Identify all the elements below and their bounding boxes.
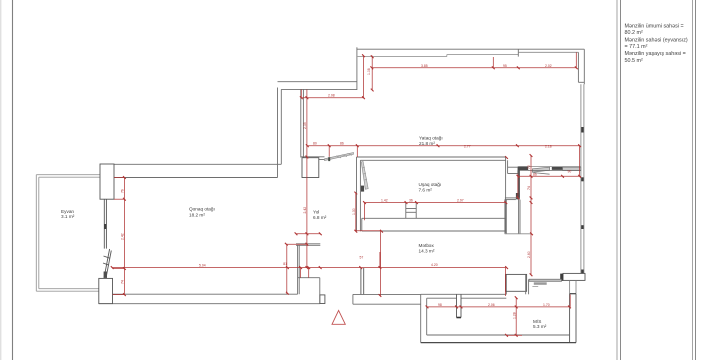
svg-text:Mətbəx: Mətbəx xyxy=(419,243,435,248)
svg-text:14.3 m²: 14.3 m² xyxy=(419,248,435,253)
svg-text:2.97: 2.97 xyxy=(457,199,464,203)
svg-text:2.42: 2.42 xyxy=(303,207,307,214)
svg-text:98: 98 xyxy=(438,303,442,307)
svg-text:76: 76 xyxy=(121,189,125,193)
svg-text:1.30: 1.30 xyxy=(352,208,356,215)
svg-text:4.20: 4.20 xyxy=(431,263,438,267)
svg-text:18.2 m²: 18.2 m² xyxy=(189,212,205,217)
svg-text:Mənzilin yaşayış sahəsi =: Mənzilin yaşayış sahəsi = xyxy=(625,51,686,57)
svg-text:2.06: 2.06 xyxy=(488,303,495,307)
svg-text:2.77: 2.77 xyxy=(464,144,471,148)
svg-text:36: 36 xyxy=(409,199,413,203)
svg-text:80: 80 xyxy=(313,142,317,146)
svg-text:86: 86 xyxy=(533,173,537,177)
svg-text:2.42: 2.42 xyxy=(121,233,125,240)
svg-text:Yol: Yol xyxy=(313,210,319,215)
svg-text:Uşaq otağı: Uşaq otağı xyxy=(419,182,442,187)
svg-text:86: 86 xyxy=(340,142,344,146)
svg-text:Yataq otağı: Yataq otağı xyxy=(419,136,443,141)
svg-text:2.60: 2.60 xyxy=(527,251,531,258)
svg-text:5.3 m²: 5.3 m² xyxy=(533,324,547,329)
svg-text:74: 74 xyxy=(527,186,531,190)
svg-text:3.85: 3.85 xyxy=(421,64,428,68)
svg-text:1.28: 1.28 xyxy=(512,312,516,319)
svg-text:7.6 m²: 7.6 m² xyxy=(419,187,433,192)
svg-text:80.2 m²: 80.2 m² xyxy=(625,30,643,36)
svg-text:2.02: 2.02 xyxy=(545,64,552,68)
svg-text:Mənzilin ümumi sahəsi =: Mənzilin ümumi sahəsi = xyxy=(625,24,684,30)
svg-text:2.35: 2.35 xyxy=(303,122,307,129)
svg-text:72: 72 xyxy=(527,165,531,169)
svg-text:6.8 m²: 6.8 m² xyxy=(313,215,327,220)
svg-text:= 77.1 m²: = 77.1 m² xyxy=(625,44,648,50)
svg-text:Qonaq otağı: Qonaq otağı xyxy=(189,207,215,212)
svg-text:90: 90 xyxy=(568,170,572,174)
svg-text:2.08: 2.08 xyxy=(328,94,335,98)
svg-text:50.5 m²: 50.5 m² xyxy=(625,58,643,64)
svg-text:1.70: 1.70 xyxy=(543,303,550,307)
svg-text:81: 81 xyxy=(283,262,287,266)
svg-text:74: 74 xyxy=(121,280,125,284)
svg-text:2.18: 2.18 xyxy=(545,144,552,148)
svg-text:21.8 m²: 21.8 m² xyxy=(419,141,435,146)
svg-text:1.42: 1.42 xyxy=(381,199,388,203)
svg-text:Mənzilin sahəsi (eyvansız): Mənzilin sahəsi (eyvansız) xyxy=(625,37,688,43)
svg-text:3.1 m²: 3.1 m² xyxy=(61,214,75,219)
svg-text:1.08: 1.08 xyxy=(367,68,371,75)
svg-text:5.04: 5.04 xyxy=(199,264,206,268)
svg-text:95: 95 xyxy=(503,64,507,68)
svg-text:57: 57 xyxy=(360,256,364,260)
